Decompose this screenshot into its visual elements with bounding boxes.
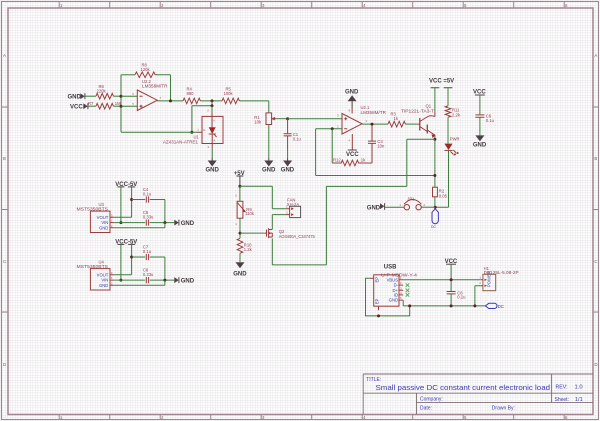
port DC (load input) (431, 209, 438, 229)
ground GND (above U2.1) (345, 90, 359, 108)
wire (C7 rail) (132, 257, 165, 280)
node (R6 / pin6) (120, 95, 123, 98)
wire (447, 117, 449, 143)
node (emitter) (433, 138, 436, 141)
svg-text:MST5350BTS: MST5350BTS (77, 207, 109, 212)
port DC (output) (485, 303, 504, 309)
wire (450, 264, 452, 291)
power flag VCC =5V (429, 78, 454, 88)
jumper JP1 (399, 197, 425, 210)
node (output U2.2) (169, 99, 172, 102)
wire (sense loop to pin2) (316, 129, 435, 176)
resistor R7 (88, 101, 121, 109)
svg-text:1/1: 1/1 (575, 397, 583, 403)
svg-text:AO3400A_C347475: AO3400A_C347475 (279, 234, 316, 239)
wire (VIN rail U4) (114, 279, 174, 281)
wire (Q2 drain to FAN pin2) (272, 215, 285, 230)
svg-text:LM358M/TR: LM358M/TR (142, 84, 168, 89)
svg-text:GND: GND (473, 142, 487, 148)
wire (239, 218, 241, 238)
potentiometer R1 (254, 113, 276, 125)
wire (GND rail) (403, 305, 485, 307)
wire (gate) (240, 232, 265, 234)
svg-text:B: B (3, 156, 6, 161)
op-amp U2.1 LM358M/TR (337, 105, 386, 150)
svg-text:VCC: VCC (346, 152, 359, 158)
node (EP bottom) (377, 314, 380, 317)
wire (collector to VCC) (434, 88, 436, 112)
svg-text:USB: USB (384, 264, 397, 270)
resistor R4 (183, 87, 200, 104)
connector USB U-F-M5DW-Y-4 (370, 264, 418, 310)
svg-text:110k: 110k (245, 211, 255, 216)
svg-text:C: C (594, 259, 597, 264)
svg-text:Date:: Date: (420, 405, 432, 411)
svg-text:JP1: JP1 (407, 197, 415, 202)
svg-text:0.05: 0.05 (439, 193, 448, 198)
wire (121, 131, 197, 134)
svg-text:GND: GND (345, 90, 359, 96)
ground GND (U1) (206, 158, 220, 173)
regulator U3 MST5350BTS (77, 202, 115, 233)
node (R2/JP1/DC) (434, 206, 437, 209)
svg-text:PWR: PWR (450, 136, 460, 141)
node (H1 gnd) (473, 304, 476, 307)
wire (211, 148, 213, 158)
resistor R11 (445, 106, 461, 117)
svg-text:VBUS: VBUS (387, 277, 399, 282)
wire (H1 pin2) (475, 286, 481, 306)
wire (113, 105, 121, 107)
svg-text:D: D (594, 362, 597, 367)
no-connect X (ID) (406, 293, 410, 297)
node (VOUT/C4) (130, 198, 133, 201)
ground GND (C1) (281, 158, 295, 173)
svg-text:B: B (594, 156, 597, 161)
node (VOUT/C7) (130, 256, 133, 259)
ground flag GND (JP1) (367, 203, 385, 211)
svg-text:880: 880 (187, 91, 195, 96)
svg-text:DC: DC (498, 304, 504, 309)
wire (200, 100, 222, 102)
wire (434, 197, 436, 207)
wire (EP loop) (366, 278, 410, 316)
wire (239, 253, 241, 262)
resistor R12 (332, 157, 366, 166)
capacitor C6 (USB decoupling) (447, 290, 467, 299)
svg-text:R7: R7 (88, 101, 94, 106)
svg-text:Sheet:: Sheet: (555, 397, 569, 403)
node (C9/GND rail) (450, 304, 453, 307)
wire (GND pin rail) (114, 223, 165, 228)
wire (VOUT rail) (114, 187, 131, 217)
capacitor C8 (143, 268, 154, 284)
wire (C4 rail) (132, 200, 165, 223)
wire (121, 96, 137, 106)
power flag +5V (234, 171, 245, 187)
wire (VIN bar U4) (120, 244, 122, 280)
ground flag GND (U4) (174, 277, 194, 284)
node (VBUS/VCC) (450, 278, 453, 281)
svg-text:220k: 220k (97, 88, 107, 93)
svg-text:10n: 10n (377, 144, 385, 149)
svg-text:GND: GND (367, 205, 381, 211)
resistor R2 (433, 187, 448, 198)
svg-text:REV:: REV: (556, 384, 568, 390)
node (pin2/R12) (331, 127, 334, 130)
svg-text:MST5350BTS: MST5350BTS (77, 264, 109, 269)
node (sense) (433, 174, 436, 177)
capacitor C3 (362, 124, 385, 163)
resistor R3 (388, 112, 405, 127)
wire (output) (157, 100, 183, 102)
svg-text:A: A (213, 139, 215, 143)
svg-text:0.1u: 0.1u (143, 192, 152, 197)
wire (287, 150, 289, 158)
wire (LED to node) (436, 150, 449, 207)
svg-text:K: K (213, 119, 215, 123)
svg-text:D: D (3, 362, 6, 367)
svg-text:C: C (3, 259, 6, 264)
capacitor C7 (143, 245, 152, 260)
capacitor C6 (475, 114, 494, 123)
transistor Q1 TIP122L-TA3-T (401, 104, 435, 140)
svg-text:A: A (594, 53, 597, 58)
wire (155, 75, 170, 101)
svg-text:GND: GND (68, 94, 82, 100)
svg-text:DC: DC (431, 225, 436, 229)
svg-text:TIP122L-TA3-T: TIP122L-TA3-T (401, 108, 435, 113)
node B (211, 104, 214, 107)
wire (emitter to Q2 source loop) (272, 139, 435, 265)
svg-text:GND: GND (233, 272, 247, 278)
ground flag GND (input R6) (68, 93, 85, 100)
svg-text:Drawn By:: Drawn By: (492, 405, 515, 411)
svg-text:Company:: Company: (420, 396, 443, 402)
svg-text:GND: GND (389, 298, 398, 303)
node (+5V) (238, 185, 241, 188)
LED PWR (444, 136, 459, 155)
power flag VCC-5V (U4) (115, 239, 137, 245)
svg-text:VCC =5V: VCC =5V (429, 78, 454, 84)
svg-text:0.1u: 0.1u (486, 118, 495, 123)
power flag VCC (below U2.1) (346, 150, 359, 158)
wire (450, 294, 452, 306)
wire (VOUT rail U4) (114, 244, 131, 274)
ground GND (R1) (262, 158, 276, 173)
svg-text:Small passive DC constant curr: Small passive DC constant current electr… (376, 383, 551, 392)
node (output U2.1) (371, 123, 374, 126)
svg-text:0.33u: 0.33u (143, 215, 154, 220)
power flag VCC (input R7) (70, 103, 88, 110)
resistor R6 (96, 84, 113, 99)
svg-text:GND: GND (99, 283, 108, 288)
wire (R1 bottom) (268, 125, 270, 159)
wire (85, 95, 96, 97)
svg-text:EP: EP (374, 299, 379, 305)
no-connect X (D+) (406, 289, 410, 293)
op-amp U2.2 LM358M/TR (132, 79, 167, 111)
resistor R10 (237, 238, 252, 253)
svg-text:120k: 120k (141, 67, 151, 72)
svg-text:DB125L-5.08-2P: DB125L-5.08-2P (484, 270, 519, 275)
svg-text:1.0: 1.0 (575, 385, 583, 391)
wire (405, 123, 416, 125)
wire (USB GND pin) (402, 300, 404, 306)
wire (VCC to R11) (447, 88, 449, 106)
regulator U4 MST5350BTS (77, 260, 115, 291)
node (GND corner U3) (163, 221, 166, 224)
svg-text:EP: EP (374, 277, 379, 283)
svg-text:GND: GND (181, 278, 195, 284)
svg-text:100k: 100k (224, 91, 234, 96)
wire (331, 129, 333, 163)
wire (+5V to FAN pin1) (240, 186, 286, 208)
wire (121, 74, 135, 76)
wire (emitter node down) (434, 139, 436, 187)
svg-text:0.1u: 0.1u (293, 136, 302, 141)
wire (88, 105, 96, 107)
node A (211, 99, 214, 102)
title block (363, 374, 593, 414)
ground GND (C6) (473, 135, 487, 148)
svg-text:LM358M/TR: LM358M/TR (361, 110, 387, 115)
shunt regulator U1 AZ431AN-ATRE1 (163, 106, 223, 149)
wire (422, 206, 436, 208)
node (gate) (239, 232, 242, 235)
wire (node D to U2.1 +) (288, 118, 342, 120)
svg-text:2.2k: 2.2k (452, 112, 461, 117)
power flag VCC (USB) (445, 259, 458, 265)
svg-text:0.1u: 0.1u (143, 249, 152, 254)
svg-text:A: A (3, 53, 6, 58)
svg-text:0.33u: 0.33u (143, 272, 154, 277)
svg-text:10k: 10k (254, 120, 262, 125)
wire (VBUS) (403, 279, 481, 281)
node (R7 / pin5) (120, 105, 123, 108)
wire (output U2.1) (362, 123, 388, 125)
svg-text:GND: GND (181, 221, 195, 227)
wire (pin2) (316, 128, 342, 130)
svg-text:1.2k: 1.2k (244, 247, 253, 252)
wire (VIN bar) (120, 187, 122, 223)
potentiometer R9 (235, 194, 255, 226)
capacitor C5 (143, 210, 154, 226)
power flag VCC-5V (U3) (115, 182, 137, 188)
wire (feedback left vertical) (120, 75, 122, 132)
ground flag GND (U3) (174, 220, 194, 227)
wire (239, 101, 268, 113)
capacitor C1 (284, 119, 302, 150)
no-connect X (D-) (406, 283, 410, 287)
wire (479, 117, 481, 135)
wire (GND pin rail U4) (114, 280, 165, 285)
svg-text:GND: GND (281, 167, 295, 173)
svg-text:XH-2A: XH-2A (287, 202, 300, 207)
node (VIN bar U4) (119, 279, 122, 282)
wire (113, 95, 121, 97)
wire (VIN rail) (114, 222, 174, 224)
svg-text:VCC: VCC (70, 104, 83, 110)
wire (276, 118, 287, 120)
svg-text:AZ431AN-ATRE1: AZ431AN-ATRE1 (163, 139, 199, 144)
svg-text:R12: R12 (333, 157, 341, 162)
svg-text:GND: GND (262, 167, 276, 173)
resistor R8 (135, 63, 155, 78)
ground GND (R10) (233, 262, 247, 277)
wire (node A to U1 ref) (192, 101, 212, 132)
node (GND corner U4) (163, 279, 166, 282)
connector FAN XH-2A (286, 197, 301, 217)
capacitor C4 (143, 187, 152, 202)
connector H1 DB125L-5.08-2P (479, 266, 519, 291)
node C (190, 131, 193, 134)
svg-text:0.1u: 0.1u (457, 295, 466, 300)
svg-text:U-F-M5DW-Y-4: U-F-M5DW-Y-4 (381, 273, 418, 278)
wire (385, 206, 404, 208)
node D (286, 117, 289, 120)
power flag VCC (C6 rail) (473, 90, 486, 115)
wire (+5V down to R9) (239, 186, 241, 201)
svg-text:GND: GND (99, 225, 108, 230)
resistor R5 (222, 87, 239, 104)
MOSFET Q2 AO3400A_C347475 (265, 228, 316, 239)
node (GND rail/EP) (408, 304, 411, 307)
svg-text:GND: GND (206, 167, 220, 173)
node (VIN bar) (119, 221, 122, 224)
